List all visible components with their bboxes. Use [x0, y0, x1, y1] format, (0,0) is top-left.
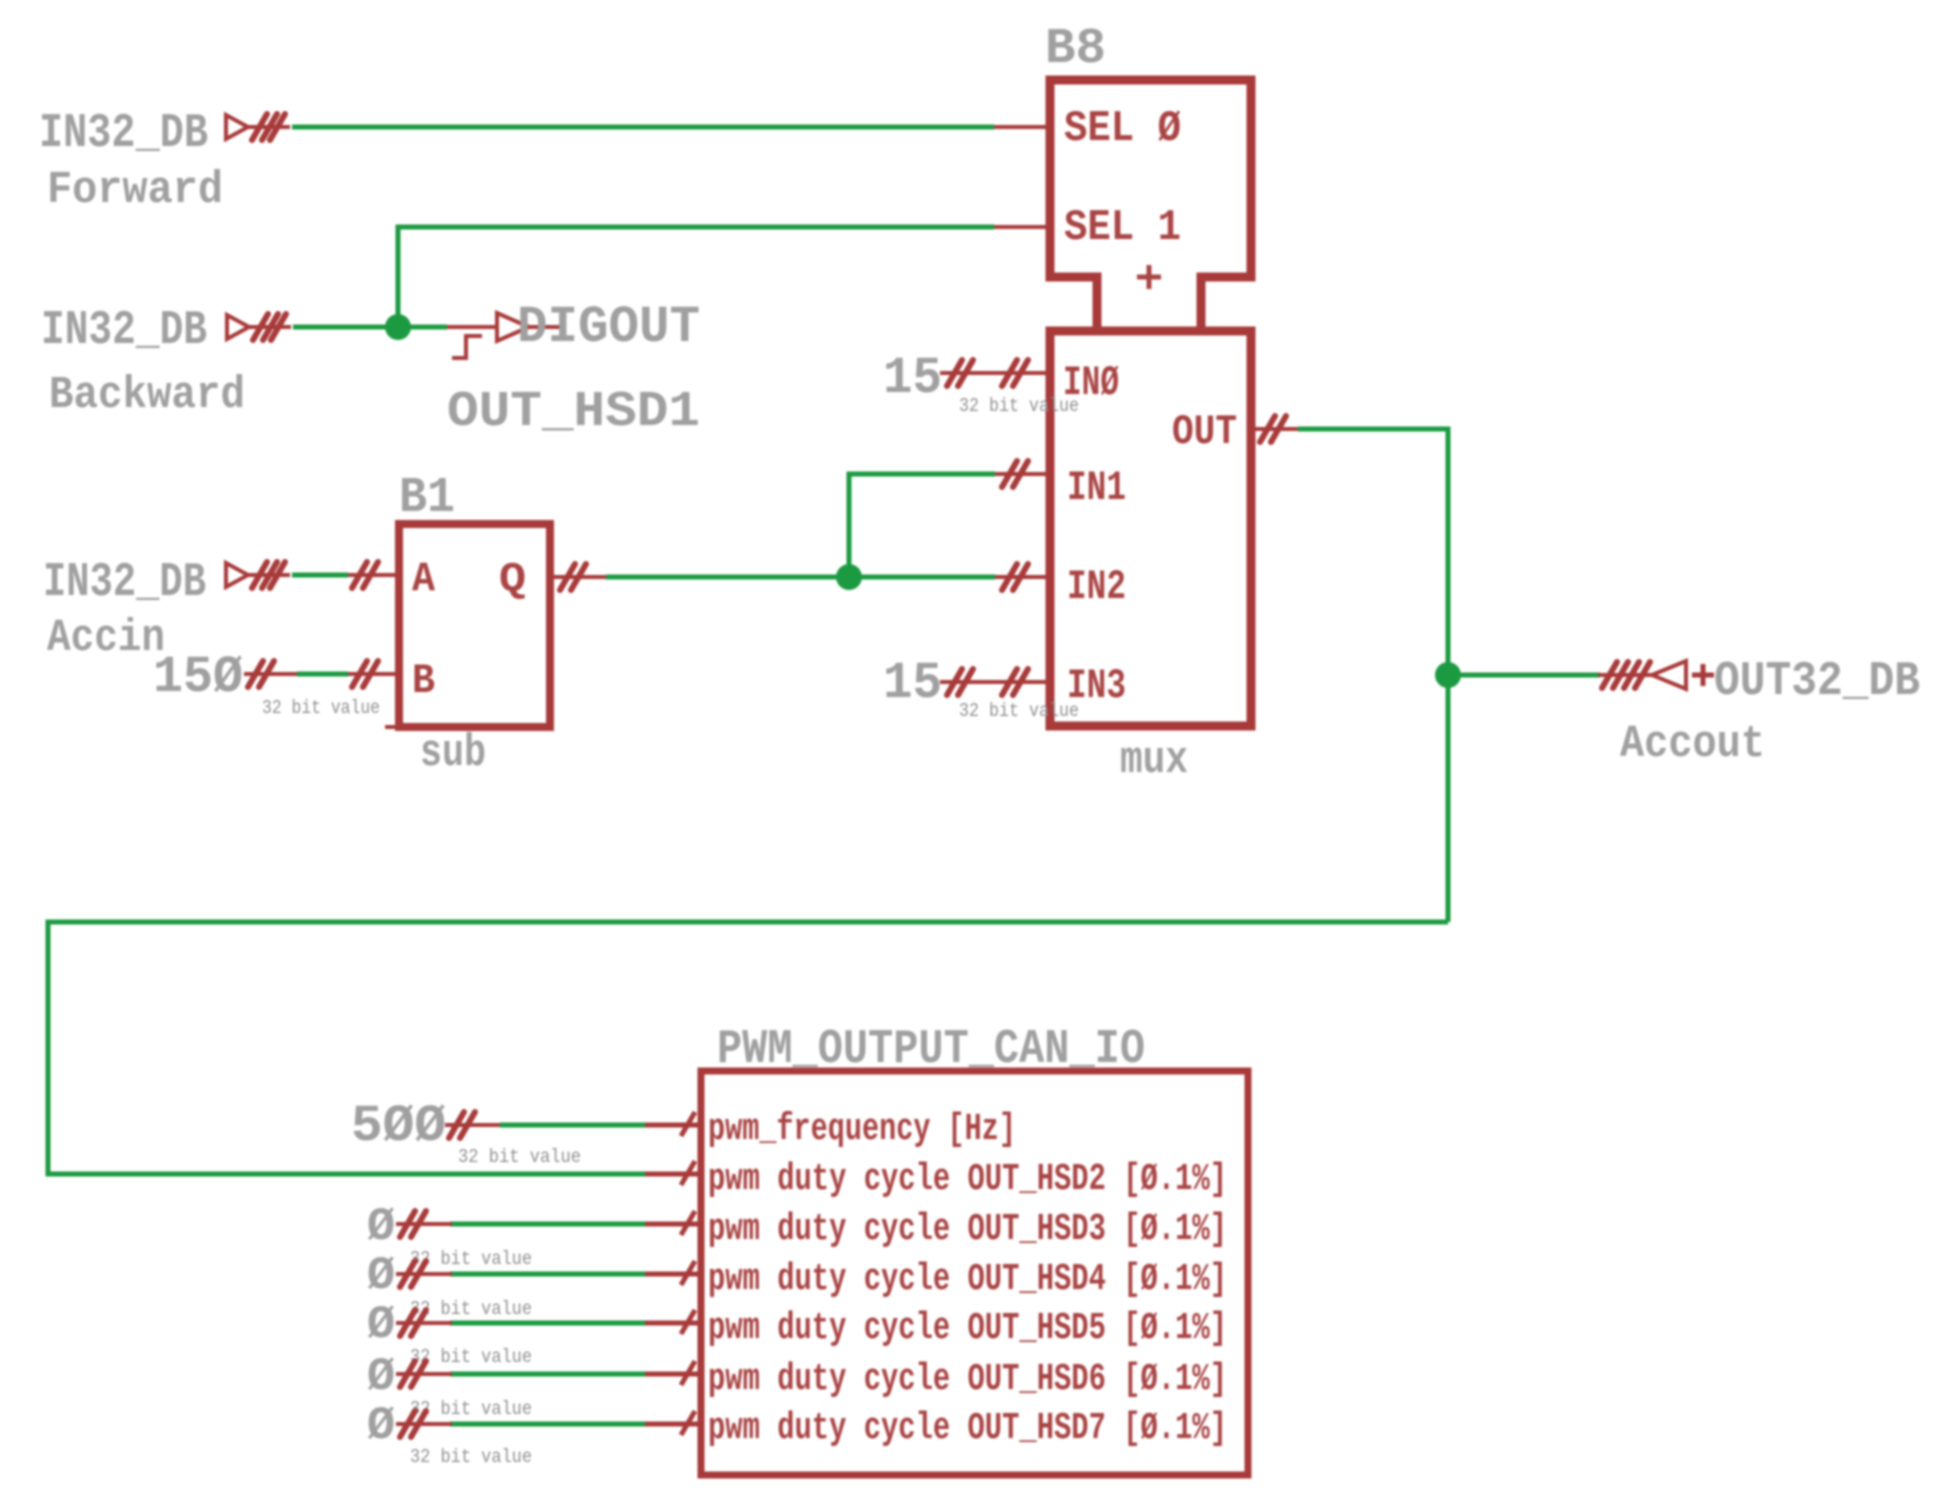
- svg-text:32 bit value: 32 bit value: [458, 1146, 581, 1168]
- svg-text:Ø: Ø: [367, 1299, 395, 1351]
- pin IN1 stub: [995, 472, 1046, 476]
- svg-text:5ØØ: 5ØØ: [351, 1097, 446, 1156]
- pin IN2 stub: [995, 575, 1046, 579]
- svg-text:B1: B1: [399, 470, 455, 527]
- svg-text:pwm duty cycle OUT_HSD7 [Ø.1%]: pwm duty cycle OUT_HSD7 [Ø.1%]: [708, 1407, 1227, 1450]
- svg-text:SEL Ø: SEL Ø: [1064, 104, 1181, 154]
- block B1 sub box: [399, 524, 550, 727]
- svg-text:pwm duty cycle OUT_HSD2 [Ø.1%]: pwm duty cycle OUT_HSD2 [Ø.1%]: [708, 1158, 1227, 1201]
- pin OUT_HSD3 stub: [645, 1211, 701, 1235]
- svg-text:Ø: Ø: [367, 1250, 395, 1302]
- pin SEL 0 stub: [994, 125, 1046, 129]
- hash 0 OUT_HSD7: [396, 1422, 452, 1426]
- svg-text:B8: B8: [1045, 21, 1106, 78]
- svg-text:sub: sub: [420, 728, 486, 779]
- wire 0 to OUT_HSD3: [450, 1222, 648, 1227]
- block mux box: [1050, 331, 1251, 726]
- svg-text:Accout: Accout: [1620, 719, 1765, 770]
- svg-text:32 bit value: 32 bit value: [959, 700, 1079, 722]
- svg-text:pwm duty cycle OUT_HSD4 [Ø.1%]: pwm duty cycle OUT_HSD4 [Ø.1%]: [708, 1258, 1227, 1301]
- wire 0 to OUT_HSD7: [450, 1422, 648, 1427]
- svg-text:IN32_DB: IN32_DB: [39, 107, 208, 161]
- connector IN32_DB Accin: [226, 562, 290, 588]
- svg-text:pwm_frequency [Hz]: pwm_frequency [Hz]: [708, 1108, 1016, 1151]
- pin Q stub: [550, 575, 606, 579]
- connector IN32_DB Backward: [227, 314, 291, 340]
- pin OUT_HSD2 stub: [645, 1161, 701, 1185]
- svg-text:32 bit value: 32 bit value: [262, 697, 380, 719]
- pin OUT stub: [1255, 427, 1298, 431]
- node junction OUT net: [1435, 662, 1461, 688]
- svg-text:Ø: Ø: [367, 1201, 395, 1253]
- svg-text:32 bit value: 32 bit value: [410, 1446, 532, 1468]
- svg-text:pwm duty cycle OUT_HSD5 [Ø.1%]: pwm duty cycle OUT_HSD5 [Ø.1%]: [708, 1307, 1227, 1350]
- pin OUT_HSD4 stub: [645, 1261, 701, 1285]
- svg-text:Q: Q: [499, 556, 526, 604]
- pin OUT_HSD5 stub: [645, 1310, 701, 1334]
- svg-text:OUT32_DB: OUT32_DB: [1714, 655, 1920, 709]
- svg-text:pwm duty cycle OUT_HSD3 [Ø.1%]: pwm duty cycle OUT_HSD3 [Ø.1%]: [708, 1208, 1227, 1251]
- svg-text:B: B: [412, 657, 435, 705]
- hash 150: [244, 672, 297, 676]
- svg-text:32 bit value: 32 bit value: [410, 1398, 532, 1420]
- svg-text:DIGOUT: DIGOUT: [517, 298, 700, 357]
- svg-text:15Ø: 15Ø: [153, 648, 243, 707]
- svg-text:SEL 1: SEL 1: [1064, 203, 1181, 253]
- wire 500 to pwm_frequency: [500, 1123, 648, 1128]
- pin OUT_HSD6 stub: [645, 1361, 701, 1385]
- svg-text:OUT_HSD1: OUT_HSD1: [447, 384, 700, 441]
- svg-text:OUT: OUT: [1172, 408, 1237, 456]
- svg-text:IN32_DB: IN32_DB: [41, 304, 207, 358]
- wire 0 to OUT_HSD4: [450, 1272, 648, 1277]
- pin SEL 1 stub: [994, 225, 1046, 229]
- connector IN32_DB Forward: [226, 114, 290, 140]
- wire OUT net to pwm duty cycle OUT_HSD2: [48, 922, 1448, 1174]
- wire net Forward: [292, 125, 994, 130]
- svg-text:32 bit value: 32 bit value: [410, 1248, 532, 1270]
- node junction Backward: [385, 314, 411, 340]
- wire branch to IN1: [849, 474, 995, 577]
- wire net Backward: [293, 325, 447, 330]
- svg-text:32 bit value: 32 bit value: [410, 1346, 532, 1368]
- wire 150 to B: [297, 672, 348, 677]
- pin IN0 stub: [940, 371, 1046, 375]
- hash 500: [445, 1123, 500, 1127]
- wire 0 to OUT_HSD5: [450, 1321, 648, 1326]
- svg-text:Ø: Ø: [367, 1400, 395, 1452]
- svg-text:Accin: Accin: [47, 613, 165, 664]
- hash 0 OUT_HSD3: [396, 1222, 452, 1226]
- pin OUT_HSD7 stub: [645, 1411, 701, 1435]
- wire branch to Accout: [1448, 673, 1600, 678]
- svg-text:IN2: IN2: [1067, 563, 1126, 611]
- block B1 bottom tick: [385, 725, 399, 729]
- pin A stub: [348, 573, 399, 577]
- block PWM_OUTPUT_CAN_IO box: [701, 1071, 1248, 1475]
- node junction Q net: [836, 564, 862, 590]
- svg-text:IN1: IN1: [1067, 464, 1126, 512]
- block B8 selector box: [1050, 80, 1251, 330]
- svg-text:IN32_DB: IN32_DB: [43, 556, 206, 610]
- svg-text:32 bit value: 32 bit value: [959, 395, 1079, 417]
- pin IN3 stub: [940, 680, 1046, 684]
- svg-text:15: 15: [883, 349, 942, 408]
- wire Q to IN2: [606, 575, 995, 580]
- svg-text:15: 15: [883, 654, 942, 713]
- svg-text:mux: mux: [1120, 735, 1188, 786]
- wire 0 to OUT_HSD6: [450, 1372, 648, 1377]
- hash 0 OUT_HSD4: [396, 1272, 452, 1276]
- hash 0 OUT_HSD5: [396, 1321, 452, 1325]
- wire OUT net down: [1298, 429, 1448, 922]
- hash 0 OUT_HSD6: [396, 1372, 452, 1376]
- svg-text:Ø: Ø: [367, 1351, 395, 1403]
- svg-text:A: A: [412, 555, 436, 603]
- svg-text:pwm duty cycle OUT_HSD6 [Ø.1%]: pwm duty cycle OUT_HSD6 [Ø.1%]: [708, 1358, 1227, 1401]
- connector OUT32_DB Accout: [1598, 661, 1714, 689]
- digital output DIGOUT symbol: [447, 313, 565, 358]
- plus sign in B8: [1137, 265, 1161, 289]
- svg-text:Backward: Backward: [49, 370, 245, 421]
- wire net Backward to SEL1: [398, 227, 994, 327]
- pin B stub: [348, 672, 399, 676]
- svg-text:Forward: Forward: [47, 165, 223, 216]
- pin pwm_frequency stub: [645, 1112, 701, 1136]
- wire net Accin to A: [292, 573, 348, 578]
